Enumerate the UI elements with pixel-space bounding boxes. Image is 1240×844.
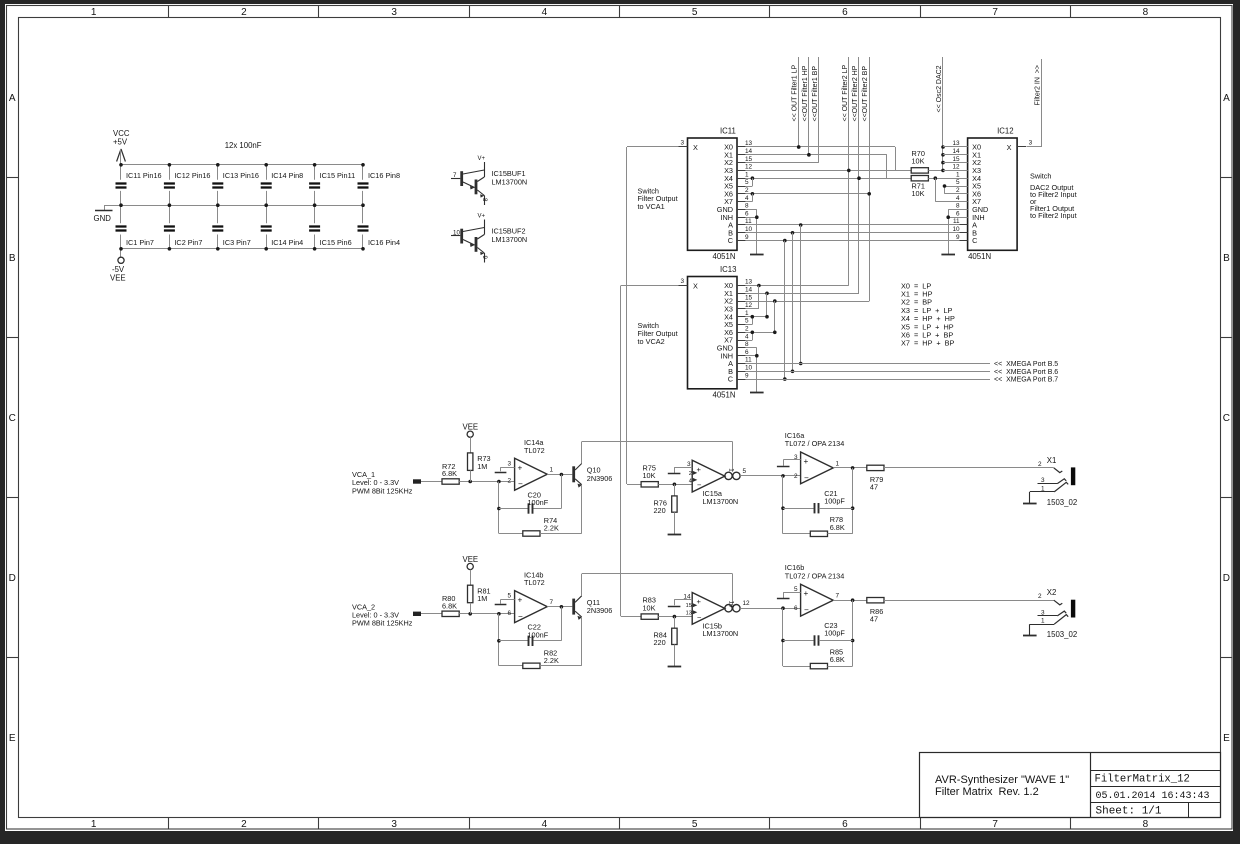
svg-text:6.8K: 6.8K [442, 602, 457, 611]
svg-text:Sheet: 1/1: Sheet: 1/1 [1096, 806, 1162, 818]
svg-text:10K: 10K [643, 603, 656, 612]
svg-text:−: − [804, 473, 809, 482]
svg-text:IC15 Pin6: IC15 Pin6 [320, 238, 352, 247]
svg-text:1503_02: 1503_02 [1047, 498, 1077, 507]
svg-text:2: 2 [241, 7, 247, 18]
svg-text:3: 3 [507, 460, 511, 467]
svg-text:FilterMatrix_12: FilterMatrix_12 [1095, 774, 1190, 786]
svg-text:B: B [9, 253, 16, 264]
svg-text:4051N: 4051N [968, 252, 991, 261]
svg-text:5: 5 [692, 819, 698, 830]
svg-text:14: 14 [952, 148, 960, 155]
svg-text:6: 6 [745, 210, 749, 217]
svg-text:−: − [804, 606, 809, 615]
svg-text:10: 10 [745, 226, 753, 233]
svg-text:2: 2 [507, 478, 511, 485]
svg-text:LM13700N: LM13700N [492, 178, 528, 187]
svg-text:2.2K: 2.2K [544, 524, 559, 533]
svg-text:7: 7 [550, 599, 554, 606]
svg-text:12: 12 [952, 164, 960, 171]
svg-text:IC1 Pin7: IC1 Pin7 [126, 238, 154, 247]
svg-text:V+: V+ [478, 214, 486, 220]
svg-text:15: 15 [745, 294, 753, 301]
svg-text:IC2 Pin7: IC2 Pin7 [174, 238, 202, 247]
svg-text:4: 4 [745, 195, 749, 202]
svg-text:47: 47 [870, 482, 878, 491]
svg-text:IC12 Pin16: IC12 Pin16 [174, 171, 210, 180]
svg-text:1M: 1M [477, 462, 487, 471]
svg-text:4: 4 [542, 7, 548, 18]
svg-text:IC3 Pin7: IC3 Pin7 [223, 238, 251, 247]
svg-text:1: 1 [745, 310, 749, 317]
svg-text:9: 9 [956, 234, 960, 241]
svg-text:<< XMEGA Port B.5: << XMEGA Port B.5 [994, 361, 1058, 368]
svg-text:2: 2 [1038, 593, 1042, 600]
svg-text:<< OUT Filter1 LP: << OUT Filter1 LP [792, 64, 799, 121]
svg-text:7: 7 [992, 7, 998, 18]
svg-text:<< OUT Filter2 LP: << OUT Filter2 LP [842, 64, 849, 121]
svg-text:−: − [518, 612, 523, 621]
svg-text:11: 11 [745, 357, 752, 364]
svg-text:9: 9 [745, 372, 749, 379]
svg-text:12x 100nF: 12x 100nF [225, 141, 262, 150]
svg-text:IC15 Pin11: IC15 Pin11 [320, 171, 356, 180]
svg-text:D: D [9, 573, 16, 584]
svg-text:<<OUT Filter1 BP: <<OUT Filter1 BP [812, 66, 819, 122]
svg-text:+: + [804, 589, 809, 598]
svg-text:9: 9 [481, 256, 488, 260]
svg-text:15: 15 [745, 156, 753, 163]
svg-text:8: 8 [745, 203, 749, 210]
svg-text:16: 16 [728, 601, 735, 608]
svg-text:6: 6 [794, 605, 798, 612]
svg-text:15: 15 [952, 156, 960, 163]
svg-text:3: 3 [681, 139, 685, 146]
svg-text:C: C [1223, 413, 1230, 424]
svg-text:IC13: IC13 [720, 265, 736, 274]
svg-text:6: 6 [956, 210, 960, 217]
svg-text:100nF: 100nF [528, 630, 549, 639]
svg-text:10: 10 [453, 230, 460, 237]
svg-text:+5V: +5V [113, 138, 128, 147]
svg-text:X7 = HP + BP: X7 = HP + BP [901, 339, 955, 348]
svg-text:3: 3 [1029, 139, 1033, 146]
svg-text:GND: GND [94, 214, 112, 223]
svg-text:2: 2 [794, 473, 798, 480]
svg-text:IC12: IC12 [997, 127, 1013, 136]
svg-text:<<OUT Filter1 HP: <<OUT Filter1 HP [802, 65, 809, 121]
svg-text:100nF: 100nF [528, 498, 549, 507]
svg-text:3: 3 [391, 7, 397, 18]
svg-text:3: 3 [391, 819, 397, 830]
svg-text:5: 5 [745, 318, 749, 325]
svg-text:2N3906: 2N3906 [587, 474, 613, 483]
svg-text:6: 6 [842, 819, 848, 830]
svg-text:7: 7 [836, 593, 840, 600]
svg-text:Switch: Switch [1030, 172, 1052, 181]
svg-text:IC14 Pin4: IC14 Pin4 [271, 238, 303, 247]
svg-text:<< XMEGA Port B.6: << XMEGA Port B.6 [994, 369, 1058, 376]
svg-text:100pF: 100pF [824, 496, 845, 505]
svg-text:to Filter2 Input: to Filter2 Input [1030, 211, 1077, 220]
svg-text:VEE: VEE [463, 555, 479, 564]
svg-text:LM13700N: LM13700N [703, 629, 739, 638]
svg-text:9: 9 [745, 234, 749, 241]
svg-text:PWM 8Bit 125KHz: PWM 8Bit 125KHz [352, 486, 413, 495]
svg-text:−: − [697, 481, 702, 490]
svg-text:1: 1 [836, 460, 840, 467]
svg-text:−: − [697, 613, 702, 622]
svg-text:5: 5 [692, 7, 698, 18]
svg-text:C: C [972, 236, 977, 245]
svg-text:1503_02: 1503_02 [1047, 630, 1077, 639]
svg-text:4051N: 4051N [713, 391, 736, 400]
svg-text:2: 2 [689, 471, 692, 477]
svg-text:E: E [1223, 733, 1230, 744]
svg-text:7: 7 [453, 172, 457, 179]
svg-text:1: 1 [91, 819, 97, 830]
svg-text:8: 8 [1143, 7, 1149, 18]
svg-text:+: + [697, 465, 702, 474]
svg-text:15: 15 [686, 603, 692, 609]
svg-text:8: 8 [1143, 819, 1149, 830]
svg-text:IC16 Pin8: IC16 Pin8 [368, 171, 400, 180]
svg-text:2: 2 [745, 326, 749, 333]
svg-text:C: C [9, 413, 16, 424]
svg-text:1M: 1M [477, 594, 487, 603]
svg-text:4: 4 [542, 819, 548, 830]
svg-text:1: 1 [550, 467, 554, 474]
svg-text:B: B [1223, 253, 1230, 264]
svg-text:+: + [804, 457, 809, 466]
svg-text:X: X [693, 143, 698, 152]
svg-text:<<OUT Filter2 HP: <<OUT Filter2 HP [852, 65, 859, 121]
svg-text:5: 5 [743, 468, 747, 475]
svg-text:2.2K: 2.2K [544, 656, 559, 665]
svg-text:A: A [1223, 93, 1230, 104]
svg-text:4051N: 4051N [713, 252, 736, 261]
svg-text:to Filter2 Input: to Filter2 Input [1030, 190, 1077, 199]
svg-text:4: 4 [956, 195, 960, 202]
svg-text:C: C [728, 375, 733, 384]
svg-text:1: 1 [91, 7, 97, 18]
svg-text:LM13700N: LM13700N [703, 497, 739, 506]
svg-text:−: − [518, 480, 523, 489]
svg-text:to VCA1: to VCA1 [638, 202, 665, 211]
svg-text:05.01.2014 16:43:43: 05.01.2014 16:43:43 [1096, 791, 1210, 802]
svg-text:6.8K: 6.8K [442, 469, 457, 478]
svg-text:6.8K: 6.8K [830, 523, 845, 532]
svg-text:1: 1 [956, 171, 960, 178]
svg-text:D: D [1223, 573, 1230, 584]
svg-text:14: 14 [745, 287, 753, 294]
svg-text:2N3906: 2N3906 [587, 606, 613, 615]
svg-text:TL072 / OPA 2134: TL072 / OPA 2134 [785, 571, 845, 580]
svg-text:X2: X2 [1047, 588, 1057, 597]
svg-text:TL072: TL072 [524, 578, 545, 587]
svg-text:PWM 8Bit 125KHz: PWM 8Bit 125KHz [352, 619, 413, 628]
svg-text:IC14 Pin8: IC14 Pin8 [271, 171, 303, 180]
svg-text:7: 7 [992, 819, 998, 830]
svg-text:Filter2 IN >>: Filter2 IN >> [1034, 65, 1041, 105]
svg-text:14: 14 [745, 148, 753, 155]
svg-text:10K: 10K [643, 471, 656, 480]
svg-text:C: C [728, 236, 733, 245]
svg-text:LM13700N: LM13700N [492, 235, 528, 244]
svg-text:5: 5 [507, 593, 511, 600]
svg-text:5: 5 [745, 179, 749, 186]
svg-text:+: + [518, 596, 523, 605]
svg-text:X1: X1 [1047, 456, 1057, 465]
svg-text:2: 2 [241, 819, 247, 830]
svg-text:4: 4 [745, 333, 749, 340]
svg-text:2: 2 [745, 187, 749, 194]
svg-text:X: X [1007, 143, 1012, 152]
svg-text:1: 1 [745, 171, 749, 178]
svg-text:<<OUT Filter2 BP: <<OUT Filter2 BP [862, 66, 869, 122]
svg-text:10: 10 [745, 365, 753, 372]
svg-text:V+: V+ [478, 156, 486, 162]
svg-text:4: 4 [689, 478, 692, 484]
svg-text:10: 10 [952, 226, 960, 233]
svg-text:+: + [697, 597, 702, 606]
svg-text:VEE: VEE [110, 274, 126, 283]
svg-text:6: 6 [507, 610, 511, 617]
svg-text:3: 3 [687, 461, 691, 468]
svg-text:6.8K: 6.8K [830, 655, 845, 664]
svg-text:1: 1 [728, 468, 735, 472]
svg-text:13: 13 [745, 279, 753, 286]
svg-text:X: X [693, 282, 698, 291]
svg-text:<< Osc2 DAC2: << Osc2 DAC2 [936, 65, 943, 112]
svg-text:VEE: VEE [463, 423, 479, 432]
svg-text:6: 6 [842, 7, 848, 18]
svg-text:2: 2 [1038, 461, 1042, 468]
svg-text:to VCA2: to VCA2 [638, 337, 665, 346]
svg-text:IC16 Pin4: IC16 Pin4 [368, 238, 400, 247]
svg-text:220: 220 [654, 638, 666, 647]
svg-text:100pF: 100pF [824, 629, 845, 638]
svg-text:220: 220 [654, 506, 666, 515]
svg-text:TL072 / OPA 2134: TL072 / OPA 2134 [785, 439, 845, 448]
svg-text:6: 6 [745, 349, 749, 356]
svg-text:A: A [9, 93, 16, 104]
svg-text:2: 2 [956, 187, 960, 194]
svg-text:E: E [9, 733, 16, 744]
svg-text:<< XMEGA Port B.7: << XMEGA Port B.7 [994, 377, 1058, 384]
svg-text:13: 13 [686, 611, 692, 617]
svg-text:10K: 10K [912, 157, 925, 166]
svg-text:1: 1 [1041, 618, 1045, 625]
svg-text:IC11 Pin16: IC11 Pin16 [126, 171, 162, 180]
svg-text:IC13 Pin16: IC13 Pin16 [223, 171, 259, 180]
svg-text:12: 12 [743, 600, 751, 607]
svg-text:12: 12 [745, 164, 753, 171]
svg-text:47: 47 [870, 615, 878, 624]
svg-text:8: 8 [956, 203, 960, 210]
svg-text:AVR-Synthesizer "WAVE 1": AVR-Synthesizer "WAVE 1" [935, 774, 1069, 786]
svg-text:10K: 10K [912, 189, 925, 198]
svg-text:+: + [518, 463, 523, 472]
svg-text:IC11: IC11 [720, 127, 736, 136]
svg-text:5: 5 [956, 179, 960, 186]
svg-text:TL072: TL072 [524, 446, 545, 455]
svg-text:3: 3 [681, 278, 685, 285]
svg-text:Filter Matrix Rev. 1.2: Filter Matrix Rev. 1.2 [935, 786, 1039, 798]
svg-text:8: 8 [481, 198, 488, 202]
